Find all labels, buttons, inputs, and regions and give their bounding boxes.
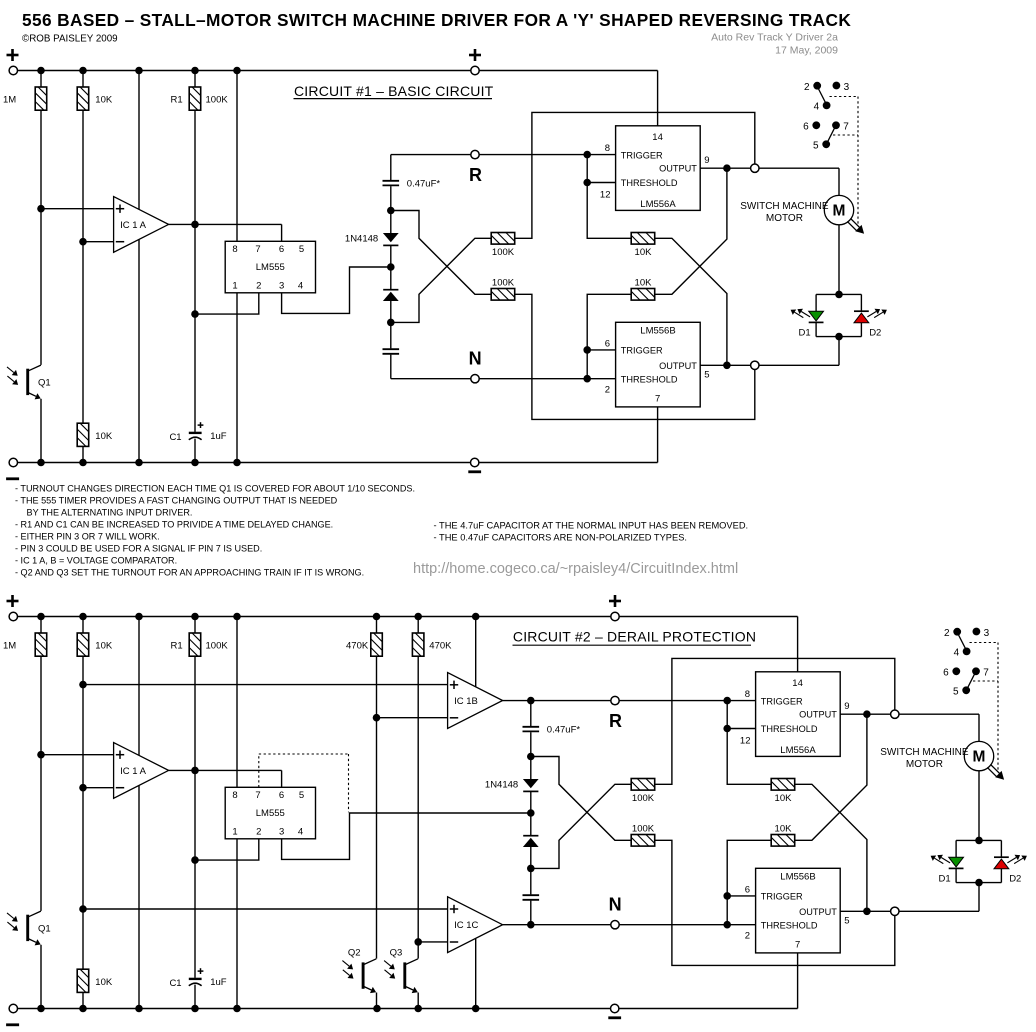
svg-text:TRIGGER: TRIGGER xyxy=(761,696,803,706)
svg-text:- EITHER PIN 3 OR 7 WILL WORK.: - EITHER PIN 3 OR 7 WILL WORK. xyxy=(15,531,160,541)
wire (- input IC 1 A) xyxy=(83,787,114,789)
node V+ rail (circuit 1) xyxy=(13,70,657,72)
label 1M xyxy=(3,95,16,106)
wire (LM555 pin 8 to V+) xyxy=(236,71,238,242)
svg-text:LM555: LM555 xyxy=(256,808,285,819)
wire (+ input IC 1 A) xyxy=(41,208,114,210)
label 100K xyxy=(632,823,655,834)
wire (to motor top) xyxy=(838,168,840,195)
node junction (bridge top) xyxy=(835,291,843,299)
svg-text:2: 2 xyxy=(745,931,750,942)
svg-text:C1: C1 xyxy=(169,432,181,443)
svg-text:5: 5 xyxy=(953,687,959,698)
svg-text:LM556A: LM556A xyxy=(640,199,676,210)
label D2 xyxy=(1009,873,1021,884)
wire xyxy=(530,847,532,894)
resistor 1M xyxy=(35,87,47,110)
capacitor 0.47uF (top) xyxy=(523,727,540,732)
wire dashed (switch linkage) xyxy=(830,97,859,225)
label pin 9 xyxy=(704,155,709,166)
label C1 xyxy=(169,432,181,443)
label N xyxy=(469,348,482,368)
svg-text:- THE 555 TIMER PROVIDES A FAS: - THE 555 TIMER PROVIDES A FAST CHANGING… xyxy=(15,495,338,505)
wire xyxy=(417,617,419,634)
svg-text:6: 6 xyxy=(803,122,809,133)
IC LM556B xyxy=(756,868,841,953)
label pin 5 xyxy=(844,915,849,926)
wire xyxy=(530,732,532,779)
op-amp IC 1 C xyxy=(448,897,503,953)
svg-text:17 May, 2009: 17 May, 2009 xyxy=(775,45,838,57)
svg-text:Q1: Q1 xyxy=(38,924,51,935)
svg-text:100K: 100K xyxy=(206,95,229,106)
svg-text:D1: D1 xyxy=(799,327,811,338)
wire (op-amp supply) xyxy=(138,71,140,463)
node junction (output 9) xyxy=(723,164,731,172)
svg-text:1N4148: 1N4148 xyxy=(485,780,518,791)
node N line xyxy=(391,378,616,380)
svg-text:7: 7 xyxy=(843,122,849,133)
motor arm xyxy=(987,764,1004,779)
junctions on V- rail xyxy=(37,1005,479,1013)
svg-text:7: 7 xyxy=(255,790,260,801)
svg-text:12: 12 xyxy=(740,735,751,746)
svg-text:R: R xyxy=(469,165,482,185)
svg-text:5: 5 xyxy=(813,141,819,152)
svg-text:1uF: 1uF xyxy=(210,431,227,442)
node R line (from IC 1 B output) xyxy=(503,700,756,702)
svg-text:IC 1B: IC 1B xyxy=(454,696,478,707)
svg-text:R1: R1 xyxy=(171,95,183,106)
label C1 xyxy=(169,978,181,989)
node junction (- input IC 1 C) xyxy=(414,938,422,946)
wire (upper 10K cross to output 5) xyxy=(795,784,867,911)
wire xyxy=(194,71,196,88)
label SWITCH MACHINE MOTOR xyxy=(880,747,969,770)
op-amp IC 1 B xyxy=(448,673,503,729)
label 100K xyxy=(206,95,229,106)
op-amp IC 1 A xyxy=(114,743,169,799)
node junction (- input IC 1 B) xyxy=(373,714,381,722)
wire (threshold A to upper 10K) xyxy=(727,729,771,785)
wire xyxy=(376,993,378,1009)
svg-text:1uF: 1uF xyxy=(210,977,227,988)
wire (IC 1 A output) xyxy=(169,223,282,225)
svg-text:BY THE ALTERNATING INPUT DRIVE: BY THE ALTERNATING INPUT DRIVER. xyxy=(27,507,193,517)
wire xyxy=(40,399,42,463)
label 470K xyxy=(346,641,369,652)
wire xyxy=(390,246,392,290)
wire (op-amp supply IC 1 B) xyxy=(475,617,477,688)
svg-text:3: 3 xyxy=(984,628,990,639)
motor M xyxy=(824,195,853,224)
notes text block xyxy=(15,483,415,577)
wire (to LM555 pin 6) xyxy=(281,770,283,787)
junctions on V+ rail xyxy=(37,67,241,75)
copyright text xyxy=(22,34,118,45)
svg-text:- TURNOUT CHANGES DIRECTION EA: - TURNOUT CHANGES DIRECTION EACH TIME Q1… xyxy=(15,483,415,493)
svg-text:10K: 10K xyxy=(635,247,653,258)
wire (bridge right bottom) xyxy=(1000,869,1002,883)
phototransistor Q3 xyxy=(384,948,418,993)
wire dashed (LM555 pin 7 option) xyxy=(259,754,349,812)
node junction (output / R1) xyxy=(191,767,199,775)
label pin 5 xyxy=(704,369,709,380)
LED D1 (green) xyxy=(949,857,964,868)
node junction (cap / diode anode) xyxy=(527,753,535,761)
resistor 1M xyxy=(35,633,47,656)
svg-text:M: M xyxy=(973,749,986,766)
svg-text:OUTPUT: OUTPUT xyxy=(659,164,697,174)
node V+ rail (circuit 2) xyxy=(13,616,797,618)
label pin 9 xyxy=(844,701,849,712)
diode 1N4148 (upper) xyxy=(523,779,539,791)
wire (lower 10K cross to output 9) xyxy=(655,168,727,294)
wire xyxy=(82,446,84,462)
svg-text:OUTPUT: OUTPUT xyxy=(659,361,697,371)
svg-text:2: 2 xyxy=(256,281,261,292)
connector pad 5 xyxy=(953,686,970,697)
svg-text:10K: 10K xyxy=(95,641,113,652)
label 100K xyxy=(492,247,515,258)
terminal R (open circle) xyxy=(611,696,619,704)
wire (bridge right top) xyxy=(860,294,862,311)
wire xyxy=(82,617,84,634)
connector pad 7 xyxy=(832,121,849,132)
svg-text:1M: 1M xyxy=(3,95,16,106)
label pin 6 xyxy=(745,885,750,896)
node junction (N / cap chain) xyxy=(527,921,535,929)
wire (chain bottom) xyxy=(390,355,392,379)
wire (bridge feed) xyxy=(838,337,840,366)
wire (op-amp supply) xyxy=(138,617,140,1009)
connector pad 4 xyxy=(814,102,831,113)
wire (lower junction to upper 100K) xyxy=(391,238,491,322)
IC LM556A xyxy=(756,672,841,757)
svg-text:THRESHOLD: THRESHOLD xyxy=(761,724,818,734)
svg-text:N: N xyxy=(609,894,622,914)
capacitor 0.47uF (top) xyxy=(383,181,400,186)
wire (upper 10K cross to output 5) xyxy=(655,238,727,365)
svg-text:10K: 10K xyxy=(95,431,113,442)
node R line xyxy=(391,154,616,156)
svg-text:Q3: Q3 xyxy=(390,948,403,959)
terminal (open circle output 9) xyxy=(751,164,759,172)
svg-text:12: 12 xyxy=(600,189,611,200)
wire (upper junction to lower 100K) xyxy=(391,211,491,295)
label 10K xyxy=(635,277,653,288)
node junction (diode / cap) xyxy=(387,319,395,327)
LED D2 light arrows xyxy=(867,309,887,318)
svg-text:- PIN 3 COULD BE USED FOR A SI: - PIN 3 COULD BE USED FOR A SIGNAL IF PI… xyxy=(15,543,262,553)
svg-text:5: 5 xyxy=(704,369,709,380)
svg-text:100K: 100K xyxy=(492,247,515,258)
svg-text:MOTOR: MOTOR xyxy=(906,759,943,770)
svg-text:6: 6 xyxy=(745,885,750,896)
connector pad 5 xyxy=(813,140,830,151)
svg-text:1N4148: 1N4148 xyxy=(345,234,378,245)
wire (chain bottom) xyxy=(530,901,532,925)
terminal (open circle output 9) xyxy=(891,710,899,718)
wire (pin 14 to V+) xyxy=(797,617,799,672)
svg-text:5: 5 xyxy=(844,915,849,926)
svg-text:10K: 10K xyxy=(775,793,793,804)
connector pad 4 xyxy=(954,648,971,659)
wire (op-amp supply IC 1 C) xyxy=(475,939,477,1009)
label 0.47uF* xyxy=(547,725,581,736)
resistor R1 100K xyxy=(189,87,201,110)
IC LM555 xyxy=(225,241,315,292)
power + terminal left xyxy=(7,595,19,621)
svg-text:100K: 100K xyxy=(492,277,515,288)
label 10K xyxy=(635,247,653,258)
motor arm xyxy=(847,218,864,233)
node junction (diode mid) xyxy=(527,809,535,817)
diode 1N4148 (lower) xyxy=(523,836,539,847)
LED D2 (red) xyxy=(854,311,869,323)
label D1 xyxy=(939,873,951,884)
svg-text:Q2: Q2 xyxy=(348,948,361,959)
node junction (- input IC 1 A) xyxy=(79,784,87,792)
connector pad 2 xyxy=(944,628,961,639)
svg-text:OUTPUT: OUTPUT xyxy=(799,907,837,917)
node V- rail (circuit 1) xyxy=(13,462,657,464)
node junction (threshold B) xyxy=(723,921,731,929)
svg-text:SWITCH MACHINE: SWITCH MACHINE xyxy=(880,747,969,758)
power - terminal mid xyxy=(608,1004,621,1018)
label pin 12 xyxy=(600,189,611,200)
IC LM555 xyxy=(225,787,315,839)
wire (pad 2 to 4) xyxy=(958,635,965,649)
svg-text:7: 7 xyxy=(795,939,800,950)
wire (chain top) xyxy=(390,155,392,180)
wire (pad 2 to 4) xyxy=(818,89,825,103)
resistor 10K (bottom left) xyxy=(77,969,89,992)
diode 1N4148 (upper) xyxy=(383,233,399,245)
phototransistor Q1 xyxy=(7,365,51,399)
wire dashed (switch linkage) xyxy=(970,643,999,771)
label 100K xyxy=(206,641,229,652)
wire xyxy=(194,110,196,432)
svg-text:TRIGGER: TRIGGER xyxy=(761,891,803,901)
wire (LM556A output 9) xyxy=(840,713,979,715)
wire xyxy=(194,439,196,463)
svg-text:http://home.cogeco.ca/~rpaisle: http://home.cogeco.ca/~rpaisley4/Circuit… xyxy=(413,561,738,577)
wire (to LM555 pin 6) xyxy=(281,224,283,241)
junctions on V- rail xyxy=(37,459,241,467)
wire (+ input IC 1 A) xyxy=(41,754,114,756)
svg-text:D2: D2 xyxy=(1009,873,1021,884)
op-amp IC 1 A xyxy=(114,197,169,253)
label 10K xyxy=(775,793,793,804)
node junction (trigger B) xyxy=(723,892,731,900)
wire (trigger-threshold tie A) xyxy=(726,701,728,729)
node junction (threshold A) xyxy=(723,725,731,733)
svg-text:3: 3 xyxy=(844,82,850,93)
node junction (- input IC 1 A) xyxy=(79,238,87,246)
svg-text:CIRCUIT #2 – DERAIL PROTECTION: CIRCUIT #2 – DERAIL PROTECTION xyxy=(513,629,756,645)
label 10K xyxy=(95,95,113,106)
power - terminal left xyxy=(6,1004,19,1025)
svg-text:LM556B: LM556B xyxy=(640,326,675,337)
svg-text:THRESHOLD: THRESHOLD xyxy=(761,920,818,930)
resistor 100K (lower) xyxy=(491,289,515,301)
wire (trigger-threshold tie B) xyxy=(726,896,728,925)
label 1uF xyxy=(210,977,227,988)
node junction (output / R1) xyxy=(191,221,199,229)
svg-text:Auto Rev Track Y Driver 2a: Auto Rev Track Y Driver 2a xyxy=(711,32,838,44)
wire (lower 10K cross to output 9) xyxy=(795,714,867,840)
wire (threshold A stub) xyxy=(587,182,615,184)
wire xyxy=(390,186,392,233)
label N xyxy=(609,894,622,914)
wire xyxy=(417,993,419,1009)
svg-text:3: 3 xyxy=(279,827,284,838)
notes text right xyxy=(434,521,749,543)
wire (pin 7 to V-) xyxy=(657,407,659,463)
label 0.47uF* xyxy=(407,179,441,190)
label D2 xyxy=(869,327,881,338)
node junction (bridge bottom) xyxy=(835,333,843,341)
wire (LM556B output 5) xyxy=(840,910,979,912)
wire (motor to bridge) xyxy=(978,771,980,841)
wire xyxy=(40,656,42,911)
node junction (output 5) xyxy=(863,908,871,916)
svg-text:D2: D2 xyxy=(869,327,881,338)
power - terminal left xyxy=(6,458,19,479)
node junction (+ input IC 1 A) xyxy=(37,751,45,759)
node junction (+ input IC 1 A) xyxy=(37,205,45,213)
svg-text:©ROB PAISLEY 2009: ©ROB PAISLEY 2009 xyxy=(22,34,118,45)
motor M xyxy=(964,741,993,770)
svg-text:7: 7 xyxy=(983,668,989,679)
svg-text:- IC 1 A, B = VOLTAGE COMPARAT: - IC 1 A, B = VOLTAGE COMPARATOR. xyxy=(15,555,177,565)
svg-text:10K: 10K xyxy=(95,977,113,988)
wire (LM555 pin 8 to V+) xyxy=(236,617,238,788)
svg-text:8: 8 xyxy=(232,244,237,255)
terminal N (open circle) xyxy=(611,921,619,929)
phototransistor Q2 xyxy=(342,948,376,993)
resistor 470K (second) xyxy=(412,633,424,656)
wire (- input IC 1 B) xyxy=(377,717,448,719)
svg-text:8: 8 xyxy=(745,689,750,700)
LED D2 (red) xyxy=(994,857,1009,869)
resistor 10K (top left) xyxy=(77,87,89,110)
label 10K xyxy=(95,977,113,988)
svg-text:IC 1 A: IC 1 A xyxy=(120,220,147,231)
svg-text:8: 8 xyxy=(605,143,610,154)
wire (lower 100K to LM556B output) xyxy=(655,840,895,965)
svg-text:SWITCH MACHINE: SWITCH MACHINE xyxy=(740,201,829,212)
resistor 10K (bottom left) xyxy=(77,423,89,446)
svg-text:D1: D1 xyxy=(939,873,951,884)
connector pad 7 xyxy=(972,667,989,678)
svg-text:4: 4 xyxy=(814,102,820,113)
node junction (bridge bottom) xyxy=(975,879,983,887)
node junction (pin 2 / R1-C1) xyxy=(191,310,199,318)
svg-text:14: 14 xyxy=(792,678,803,689)
svg-text:OUTPUT: OUTPUT xyxy=(799,710,837,720)
url text xyxy=(413,561,738,577)
wire xyxy=(82,992,84,1008)
wire xyxy=(530,792,532,836)
label 10K xyxy=(95,431,113,442)
wire xyxy=(40,945,42,1009)
svg-text:R: R xyxy=(609,711,622,731)
wire (trigger B to lower 10K) xyxy=(587,294,631,350)
wire xyxy=(194,617,196,634)
wire (bridge bottom) xyxy=(816,336,861,338)
connector pad 2 xyxy=(804,82,821,93)
wire (bridge left bottom) xyxy=(815,322,817,336)
svg-text:10K: 10K xyxy=(775,823,793,834)
svg-text:4: 4 xyxy=(954,648,960,659)
svg-text:- R1 AND C1 CAN BE INCREASED T: - R1 AND C1 CAN BE INCREASED TO PRIVIDE … xyxy=(15,519,333,529)
label D1 xyxy=(799,327,811,338)
wire (LM555 pin 3 route) xyxy=(282,813,531,859)
LED D1 (green) xyxy=(809,311,824,322)
resistor 10K (top left) xyxy=(77,633,89,656)
wire (+ input IC 1 C) xyxy=(83,908,448,910)
connector pad 3 xyxy=(833,82,850,93)
svg-text:4: 4 xyxy=(298,827,303,838)
label 1N4148 xyxy=(485,780,518,791)
svg-text:R1: R1 xyxy=(171,641,183,652)
label 1uF xyxy=(210,431,227,442)
label 100K xyxy=(632,793,655,804)
svg-text:9: 9 xyxy=(844,701,849,712)
terminal (open circle output 5) xyxy=(891,907,899,915)
wire (bridge right bottom) xyxy=(860,323,862,337)
wire (pad 7 to 5) xyxy=(968,674,975,688)
svg-text:- THE 0.47uF CAPACITORS ARE NO: - THE 0.47uF CAPACITORS ARE NON-POLARIZE… xyxy=(434,532,688,542)
capacitor 0.47uF (bottom) xyxy=(523,895,540,900)
wire (bridge top) xyxy=(816,293,861,295)
heading circuit 1 xyxy=(294,83,494,99)
LED D2 light arrows xyxy=(1007,855,1027,864)
LED D1 light arrows xyxy=(791,309,811,318)
wire xyxy=(194,985,196,1009)
wire (threshold A to upper 10K) xyxy=(587,183,631,239)
wire (lower junction to upper 100K) xyxy=(531,784,631,868)
wire (bridge top) xyxy=(956,839,1001,841)
svg-text:C1: C1 xyxy=(169,978,181,989)
wire xyxy=(376,617,378,634)
wire xyxy=(40,71,42,88)
wire (- input IC 1 A) xyxy=(83,241,114,243)
svg-text:- THE 4.7uF CAPACITOR AT THE N: - THE 4.7uF CAPACITOR AT THE NORMAL INPU… xyxy=(434,521,749,531)
heading circuit 2 xyxy=(513,629,757,646)
wire (IC 1 A output) xyxy=(169,769,282,771)
svg-text:2: 2 xyxy=(804,82,810,93)
svg-text:MOTOR: MOTOR xyxy=(766,213,803,224)
node junction (+ input IC 1 C) xyxy=(79,905,87,913)
resistor 10K (upper) xyxy=(631,233,655,245)
wire (motor to bridge) xyxy=(838,225,840,295)
label pin 6 xyxy=(605,339,610,350)
connector pad 3 xyxy=(973,628,990,639)
wire (pin 7 to V-) xyxy=(797,953,799,1009)
svg-text:6: 6 xyxy=(605,339,610,350)
svg-text:2: 2 xyxy=(605,385,610,396)
label R xyxy=(469,165,482,185)
svg-text:6: 6 xyxy=(943,668,949,679)
wire (pad 7 to 5) xyxy=(828,128,835,142)
resistor 10K (upper) xyxy=(771,779,795,791)
svg-text:M: M xyxy=(833,203,846,220)
svg-text:THRESHOLD: THRESHOLD xyxy=(621,178,678,188)
doc date text xyxy=(775,45,838,57)
